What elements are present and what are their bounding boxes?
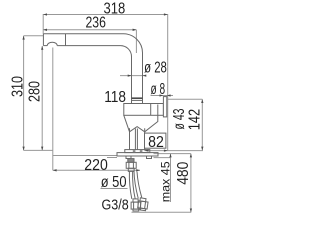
svg-text:ø 50: ø 50 [101, 174, 127, 191]
svg-text:118: 118 [104, 89, 126, 106]
svg-text:ø 43: ø 43 [171, 108, 188, 129]
svg-text:82: 82 [148, 134, 164, 151]
svg-text:318: 318 [104, 1, 126, 18]
svg-text:ø 28: ø 28 [144, 59, 167, 76]
svg-text:max 45: max 45 [159, 161, 173, 202]
svg-text:142: 142 [187, 109, 204, 130]
svg-text:236: 236 [86, 15, 106, 32]
svg-text:310: 310 [10, 76, 27, 97]
svg-text:220: 220 [84, 157, 108, 174]
svg-text:ø 8: ø 8 [151, 81, 166, 98]
svg-text:280: 280 [27, 81, 44, 102]
svg-text:G3/8: G3/8 [102, 197, 129, 213]
svg-text:480: 480 [175, 162, 192, 185]
